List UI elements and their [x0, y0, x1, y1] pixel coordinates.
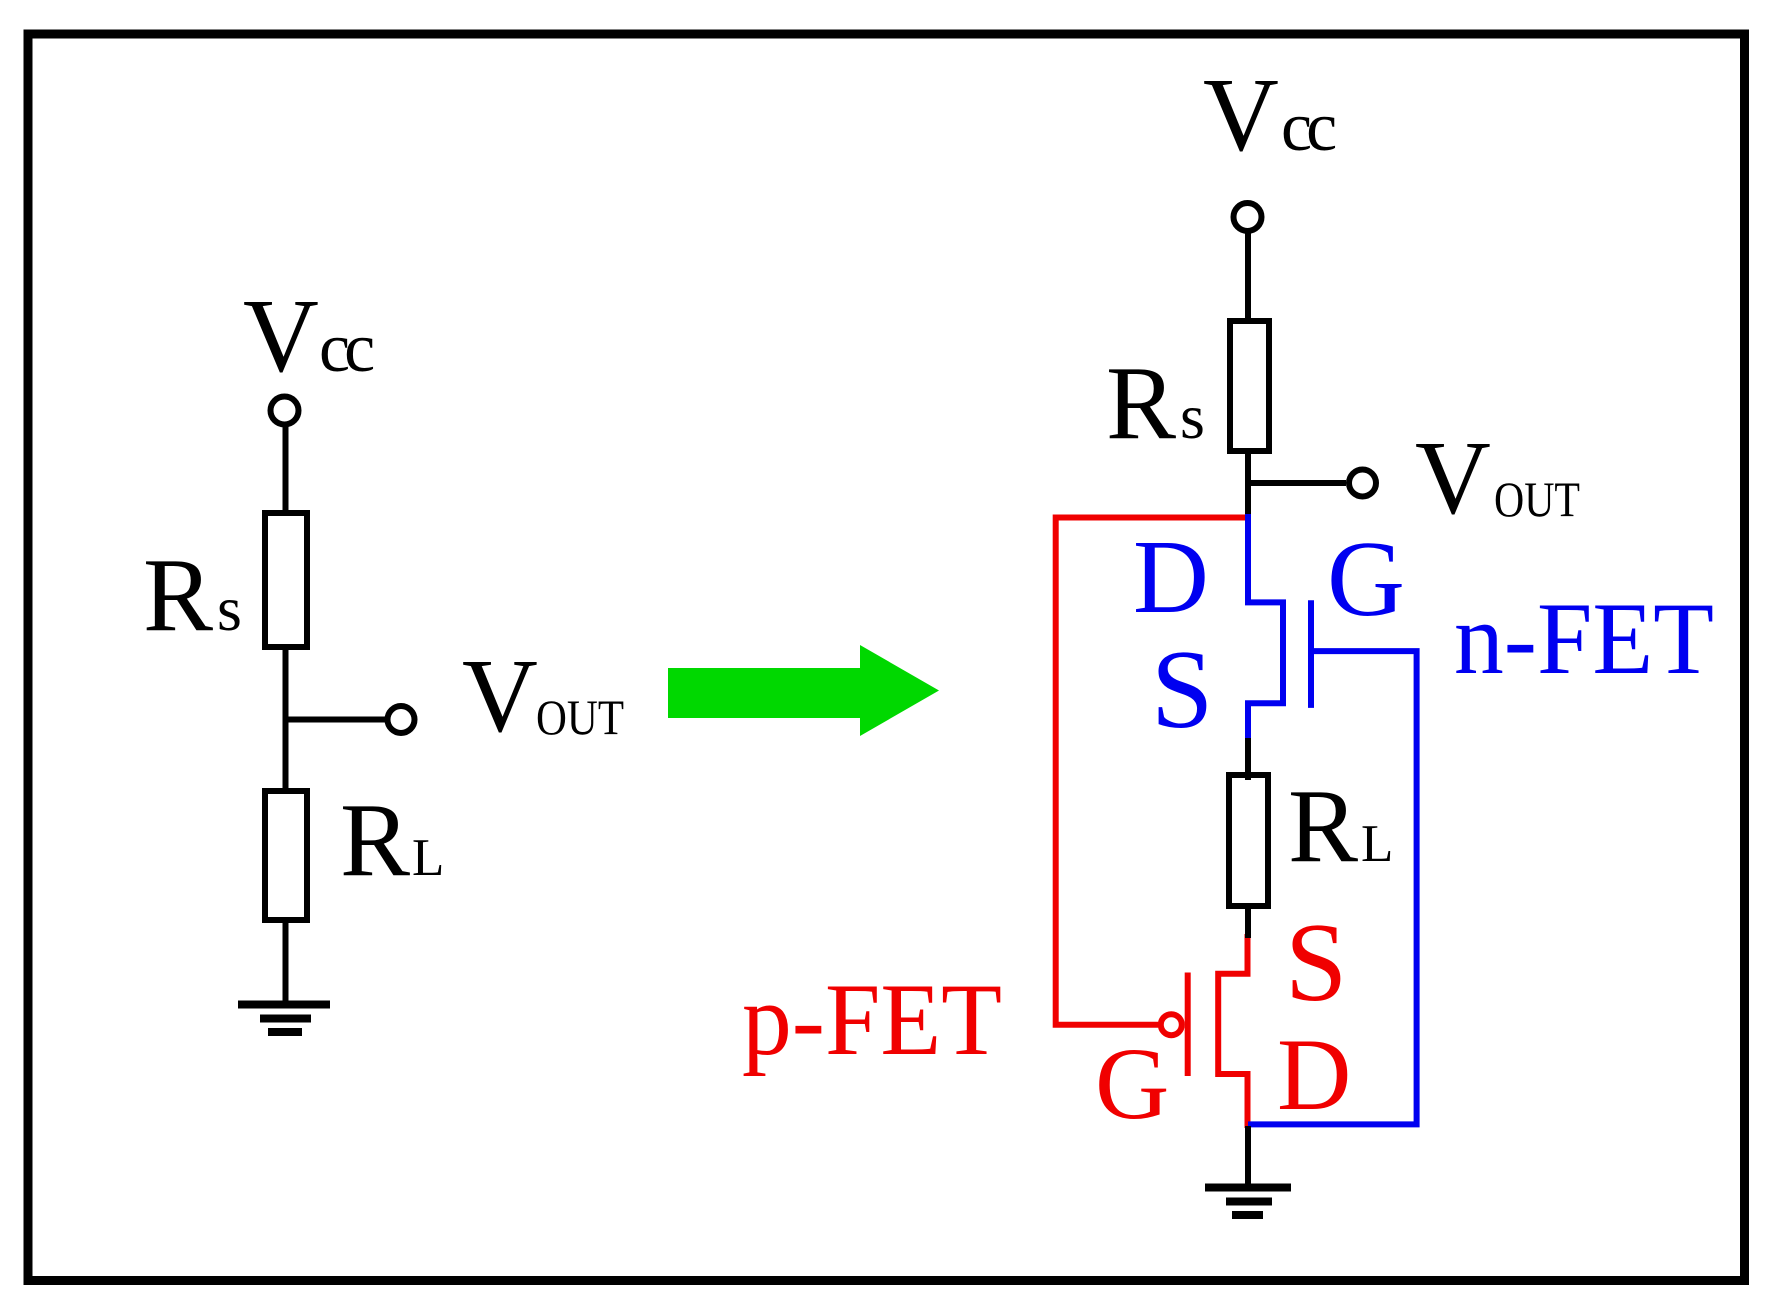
- wire: [1056, 518, 1248, 1025]
- node Vcc (right): [1203, 56, 1335, 173]
- node Vcc (left): [243, 277, 373, 394]
- label Vout (left): [462, 637, 624, 754]
- svg-text:R: R: [1288, 767, 1358, 884]
- svg-text:S: S: [1151, 628, 1213, 752]
- ground (left): [238, 1005, 330, 1033]
- svg-text:R: R: [1106, 344, 1176, 461]
- resistor RL (right): [1229, 775, 1268, 906]
- label RL (left): [340, 781, 444, 898]
- svg-text:V: V: [1415, 419, 1491, 536]
- wire: [1245, 738, 1251, 780]
- svg-text:s: s: [217, 573, 242, 644]
- resistor RL (left): [265, 791, 307, 920]
- label Rs (left): [143, 536, 242, 653]
- ground (right): [1205, 1188, 1291, 1216]
- svg-text:S: S: [1285, 901, 1347, 1025]
- wire: [1245, 451, 1251, 520]
- svg-text:L: L: [1361, 815, 1393, 873]
- svg-text:G: G: [1095, 1027, 1169, 1141]
- svg-text:R: R: [143, 536, 213, 653]
- svg-text:V: V: [462, 637, 538, 754]
- terminal Vcc (right): [1234, 203, 1262, 231]
- svg-text:p-FET: p-FET: [742, 963, 1002, 1077]
- arrow: [668, 645, 939, 736]
- wire: [1245, 1126, 1251, 1186]
- wire: [1248, 480, 1346, 486]
- transistor p-FET: [1161, 934, 1248, 1128]
- label Rs (right): [1106, 344, 1205, 461]
- wire: [1245, 906, 1251, 938]
- label Vout (right): [1415, 419, 1580, 536]
- wire: [283, 647, 289, 795]
- wire: [286, 717, 388, 723]
- svg-text:OUT: OUT: [536, 689, 624, 745]
- label RL (right): [1288, 767, 1393, 884]
- svg-text:G: G: [1327, 520, 1405, 639]
- wire: [283, 920, 289, 1002]
- svg-text:s: s: [1180, 381, 1205, 452]
- svg-text:R: R: [340, 781, 410, 898]
- svg-text:cc: cc: [319, 310, 373, 387]
- svg-text:V: V: [243, 277, 319, 394]
- wire: [1248, 651, 1417, 1124]
- svg-text:OUT: OUT: [1494, 471, 1580, 527]
- svg-text:D: D: [1277, 1018, 1351, 1132]
- svg-text:n-FET: n-FET: [1454, 582, 1714, 696]
- svg-text:D: D: [1133, 518, 1209, 635]
- svg-text:L: L: [412, 829, 444, 887]
- terminal Vout (left): [388, 706, 415, 733]
- wire: [1245, 231, 1251, 325]
- resistor Rs (right): [1230, 321, 1269, 451]
- transistor n-FET: [1248, 514, 1311, 741]
- terminal Vcc (left): [271, 397, 299, 425]
- terminal Vout (right): [1349, 470, 1376, 497]
- resistor Rs (left): [265, 513, 307, 647]
- svg-text:cc: cc: [1281, 89, 1335, 166]
- svg-text:V: V: [1203, 56, 1279, 173]
- wire: [283, 424, 289, 518]
